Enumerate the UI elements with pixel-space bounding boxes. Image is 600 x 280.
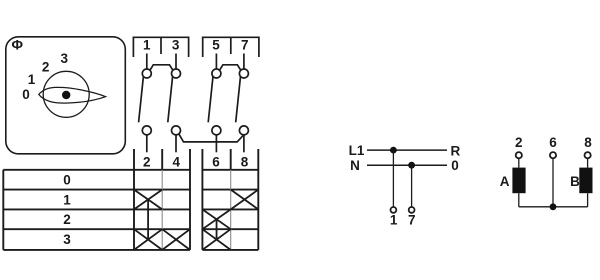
svg-text:6: 6 [212, 154, 220, 169]
knob pointer lens [39, 87, 106, 103]
X mark contact 6 position 3 [202, 229, 230, 250]
svg-text:0: 0 [63, 173, 71, 188]
terminal circle 2 [516, 152, 522, 158]
star point wire [519, 206, 588, 208]
svg-text:4: 4 [172, 154, 180, 169]
wire stub terminal 3 [175, 54, 177, 70]
knob center dot [62, 91, 70, 99]
terminal circle 7 [409, 207, 415, 213]
switch blade contact 5-6 [208, 76, 213, 122]
contact circle 6 [212, 126, 221, 135]
terminal circle 1 [391, 207, 397, 213]
bridge wire 4-8 [179, 134, 244, 142]
bracket divider group 2 [230, 37, 232, 54]
wire stub terminal 8 [243, 135, 245, 153]
contact circle 4 [172, 126, 181, 135]
X mark contact 4 position 3 [162, 229, 190, 250]
svg-text:1: 1 [143, 37, 151, 52]
table column edge 4-right [189, 149, 191, 250]
svg-text:7: 7 [408, 212, 416, 227]
wire stub terminal 5 [215, 54, 217, 70]
svg-text:2: 2 [42, 60, 50, 75]
svg-text:L1: L1 [349, 143, 365, 158]
bridge wire 5-7 [219, 65, 241, 71]
switch blade contact 1-2 [139, 76, 144, 122]
table column edge 6-left [201, 149, 203, 250]
wire stub terminal 7 [243, 54, 245, 70]
wire junction to terminal 1 [392, 150, 394, 207]
terminal circle 6 [550, 152, 556, 158]
table left border [2, 170, 4, 250]
X mark contact 8 position 1 [231, 190, 259, 210]
svg-text:2: 2 [515, 135, 523, 150]
winding A [512, 168, 525, 194]
svg-text:5: 5 [212, 37, 220, 52]
svg-text:1: 1 [28, 72, 36, 87]
terminal circle 8 [585, 152, 591, 158]
terminal bracket group 1 (terminals 1,3) [133, 37, 188, 57]
X mark contact 6 position 2 [202, 209, 230, 229]
svg-text:1: 1 [63, 192, 71, 207]
winding B [579, 168, 592, 194]
contact circle 3 [172, 69, 181, 78]
knob circle [43, 71, 89, 117]
table column separator 6/8 [230, 149, 232, 170]
bridge line contact 6 position 2-3 [216, 219, 218, 239]
bridge wire 1-3 [150, 65, 173, 71]
svg-text:B: B [570, 174, 580, 189]
bracket divider group 1 [160, 37, 162, 54]
contact circle 2 [142, 126, 151, 135]
wire stub terminal 2 [146, 135, 148, 153]
svg-text:3: 3 [172, 37, 180, 52]
bridge line contact 2 position 1-3 [147, 200, 149, 240]
contact circle 7 [239, 69, 248, 78]
svg-text:3: 3 [60, 51, 68, 66]
terminal bracket group 2 (terminals 5,7) [203, 37, 259, 57]
X mark contact 2 position 1 [134, 190, 162, 210]
table row lines left block [3, 170, 190, 250]
svg-text:8: 8 [584, 135, 592, 150]
table column edge 2-left [133, 149, 135, 250]
svg-text:2: 2 [143, 154, 151, 169]
svg-text:0: 0 [451, 158, 459, 173]
wire terminal 2 to winding A [518, 158, 520, 167]
svg-text:3: 3 [63, 232, 71, 247]
junction L1 node [390, 147, 397, 154]
wire L1-R [367, 149, 447, 151]
contact circle 5 [212, 69, 221, 78]
rotary switch S1 position-indicator box [6, 37, 126, 154]
star point junction node [550, 203, 557, 210]
switch blade contact 3-4 [168, 76, 173, 122]
switch blade contact 7-8 [236, 76, 241, 122]
svg-text:8: 8 [241, 154, 249, 169]
wire stub terminal 4 [175, 135, 177, 153]
svg-text:1: 1 [390, 212, 398, 227]
wire terminal 6 to star point [552, 158, 554, 206]
X mark contact 2 position 3 [134, 229, 162, 250]
wire terminal 8 to winding B [587, 158, 589, 167]
svg-text:6: 6 [549, 135, 557, 150]
svg-text:N: N [350, 158, 360, 173]
contact circle 1 [142, 69, 151, 78]
contact circle 8 [239, 126, 248, 135]
table row lines right block [202, 170, 258, 250]
table column separator 2/4 [161, 149, 163, 170]
wire stub terminal 6 [215, 135, 217, 153]
junction N node [408, 162, 415, 169]
table column edge 8-right [257, 149, 259, 250]
svg-text:Φ: Φ [11, 36, 23, 52]
wire N-0 [367, 164, 447, 166]
wire stub terminal 1 [146, 54, 148, 70]
svg-text:7: 7 [241, 37, 249, 52]
wire winding B to star point [587, 193, 589, 207]
wire winding A to star point [518, 193, 520, 207]
svg-text:2: 2 [63, 212, 71, 227]
wire junction to terminal 7 [411, 165, 413, 207]
svg-text:0: 0 [22, 87, 30, 102]
svg-text:A: A [500, 174, 510, 189]
svg-text:R: R [451, 143, 461, 158]
